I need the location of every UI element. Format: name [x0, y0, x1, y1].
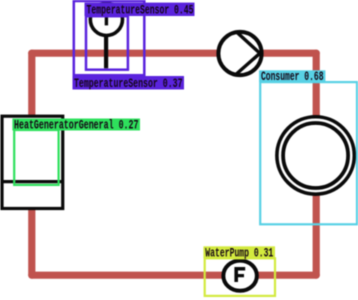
detection box: TemperatureSensor 0.37 (outer purple): [74, 1, 145, 75]
temperature sensor TS1: stem: [104, 34, 108, 68]
consumer C1: outer circle: [277, 117, 354, 194]
svg-text:HeatGeneratorGeneral 0.27: HeatGeneratorGeneral 0.27: [14, 119, 139, 133]
wire: left pipe segment (through heat generator B1): [28, 53, 35, 275]
detection box: TemperatureSensor 0.45 (inner blue): [86, 16, 128, 69]
label background: TemperatureSensor 0.37: [73, 76, 185, 90]
svg-text:Consumer 0.68: Consumer 0.68: [261, 70, 324, 84]
pump P1: flow-direction triangle: [235, 32, 260, 76]
temperature sensor TS1: bulb circle: [90, 3, 122, 35]
svg-text:TemperatureSensor 0.45: TemperatureSensor 0.45: [87, 4, 194, 18]
svg-text:TemperatureSensor 0.37: TemperatureSensor 0.37: [74, 77, 183, 91]
detection box: Consumer 0.68 (cyan): [260, 82, 357, 224]
wire: bottom pipe segment (through water pump F1): [32, 272, 316, 279]
detection box: HeatGeneratorGeneral 0.27 (green): [14, 130, 58, 185]
heat generator B1: divider line: [1, 180, 65, 183]
label background: TemperatureSensor 0.45: [85, 3, 195, 16]
label background: WaterPump 0.31: [203, 246, 275, 258]
label background: Consumer 0.68: [259, 70, 325, 82]
wire: top pipe segment (heat generator to consumer, via pump P1): [32, 50, 316, 57]
temperature sensor TS1: indicator line: [105, 3, 108, 25]
svg-text:WaterPump 0.31: WaterPump 0.31: [205, 246, 273, 260]
water pump F1: circle: [223, 261, 257, 291]
consumer C1: inner circle: [283, 123, 348, 188]
detection box: WaterPump 0.31 (yellow): [205, 258, 275, 296]
label background: HeatGeneratorGeneral 0.27: [12, 119, 140, 131]
wire: right pipe segment (through consumer C1): [313, 53, 320, 275]
water pump F1: letter F marking: [234, 267, 245, 282]
pump P1: circle: [218, 32, 261, 75]
heat generator B1: boiler body: [2, 116, 63, 208]
